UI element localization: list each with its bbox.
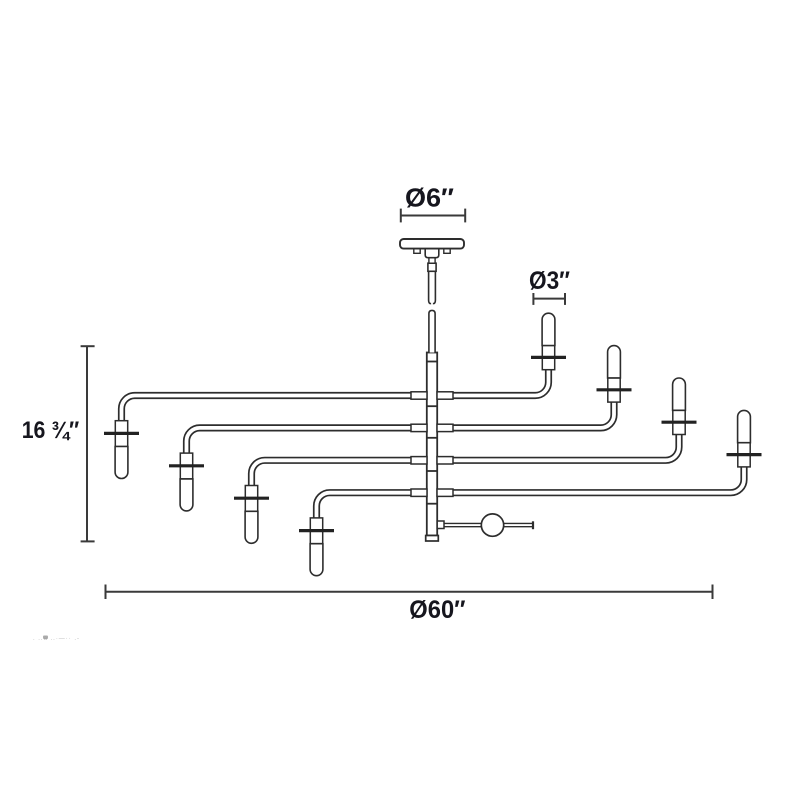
svg-text:16 ¾″: 16 ¾″ — [22, 417, 80, 444]
svg-text:Ø60″: Ø60″ — [409, 596, 465, 624]
svg-text:Ø6″: Ø6″ — [405, 183, 454, 213]
svg-text:. ..a ..·—·· .-: . ..a ..·—·· .- — [33, 636, 79, 642]
svg-text:Ø3″: Ø3″ — [529, 267, 570, 295]
